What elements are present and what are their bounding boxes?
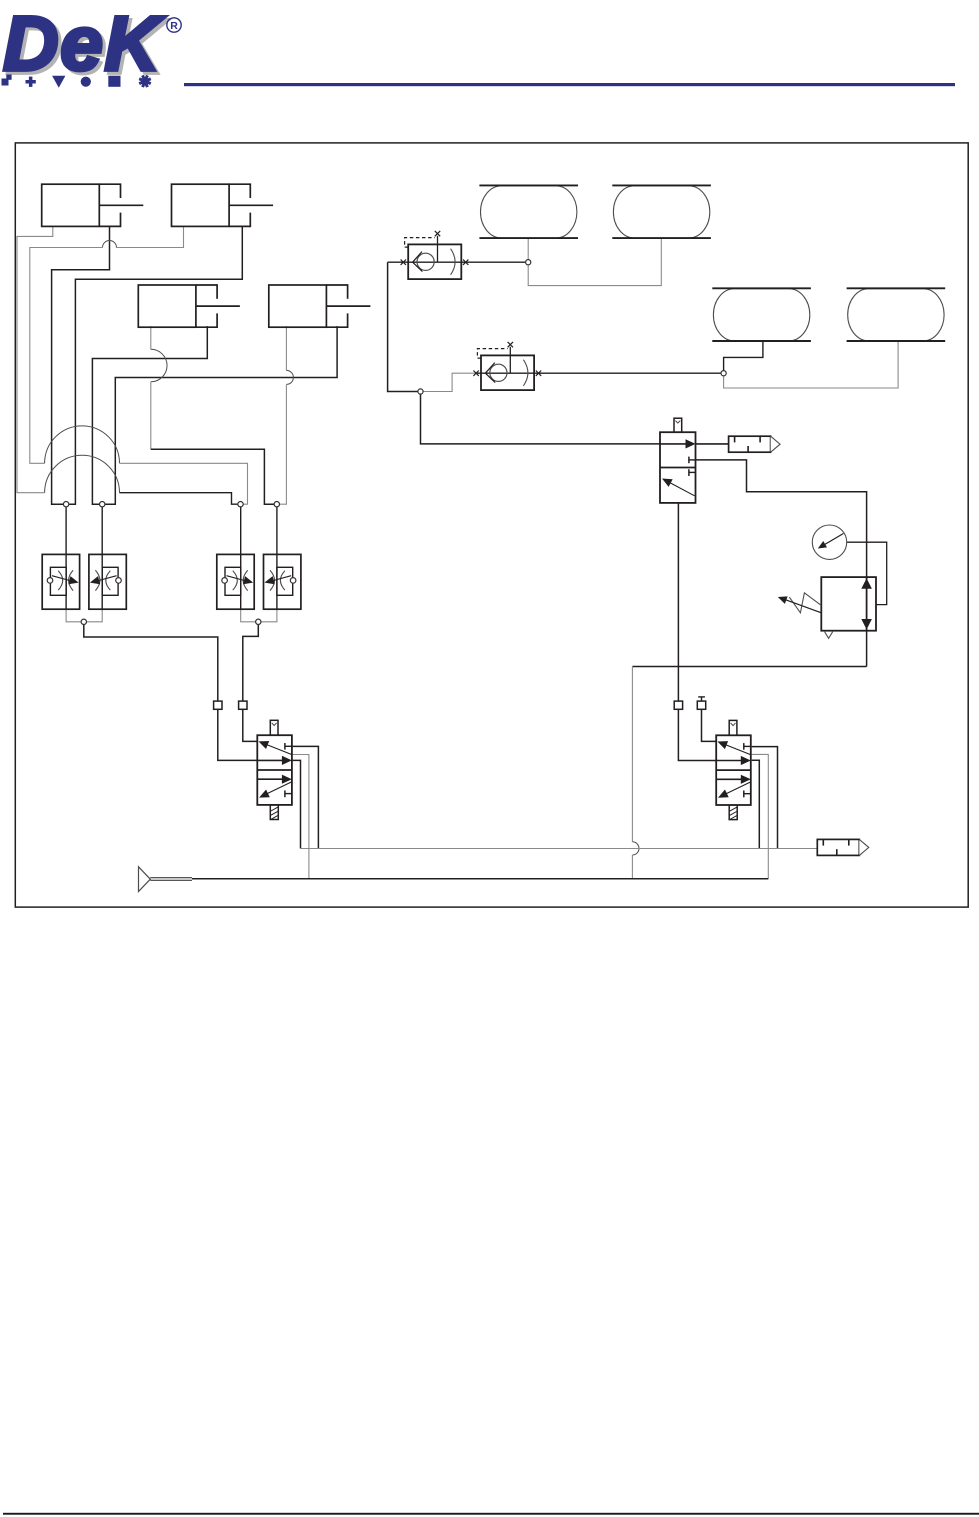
- svg-text:R: R: [170, 20, 178, 32]
- svg-text:DeK: DeK: [3, 1, 165, 87]
